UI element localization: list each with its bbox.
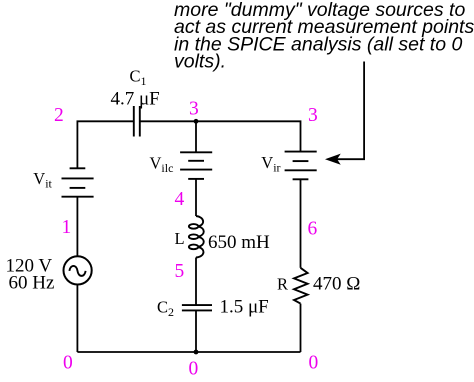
svg-text:R: R — [277, 275, 288, 294]
svg-text:2: 2 — [54, 105, 64, 126]
capacitor C2 — [182, 305, 212, 310]
AC source V1 circle — [64, 256, 92, 284]
AC source sine wave — [69, 266, 85, 276]
battery V_it — [62, 168, 94, 196]
wire top from C1 to node3 to V_ir corner — [140, 121, 301, 151]
svg-text:0: 0 — [63, 353, 73, 374]
wire bottom rail — [77, 351, 300, 353]
svg-text:0: 0 — [309, 353, 319, 374]
inductor L coil — [189, 216, 204, 258]
svg-text:470 Ω: 470 Ω — [313, 274, 360, 295]
svg-text:volts).: volts). — [174, 50, 226, 72]
svg-text:3: 3 — [308, 105, 318, 126]
wire resistor R to bottom — [300, 304, 302, 352]
wire V_ilc to inductor L — [195, 179, 197, 216]
capacitor C1 — [134, 106, 140, 137]
annotation arrowhead — [327, 155, 340, 164]
svg-text:1: 1 — [62, 217, 72, 238]
battery V_ir — [285, 152, 317, 180]
resistor R zigzag — [294, 268, 308, 304]
svg-text:4.7 μF: 4.7 μF — [111, 89, 160, 110]
svg-text:0: 0 — [189, 359, 199, 380]
wire V_it to AC source — [76, 197, 78, 257]
node 0 junction dot — [194, 350, 199, 355]
wire node3 to V_ilc — [195, 121, 197, 152]
wire C2 to node 0 — [195, 310, 197, 352]
svg-text:4: 4 — [175, 189, 185, 210]
wire node2 corner (top-left) — [77, 121, 133, 168]
battery V_ilc — [180, 152, 212, 179]
svg-text:5: 5 — [175, 261, 185, 282]
svg-text:6: 6 — [308, 219, 318, 240]
svg-text:3: 3 — [189, 99, 199, 120]
svg-text:650 mH: 650 mH — [208, 232, 270, 253]
wire V_ir to resistor R — [300, 179, 302, 267]
svg-text:L: L — [175, 229, 185, 248]
wire AC source to bottom — [76, 284, 78, 352]
svg-text:1.5 μF: 1.5 μF — [220, 297, 269, 318]
node 3 junction dot — [194, 119, 199, 124]
annotation arrow to V_ir — [337, 62, 364, 160]
svg-text:60 Hz: 60 Hz — [9, 273, 55, 294]
wire inductor L to C2 — [195, 258, 197, 306]
